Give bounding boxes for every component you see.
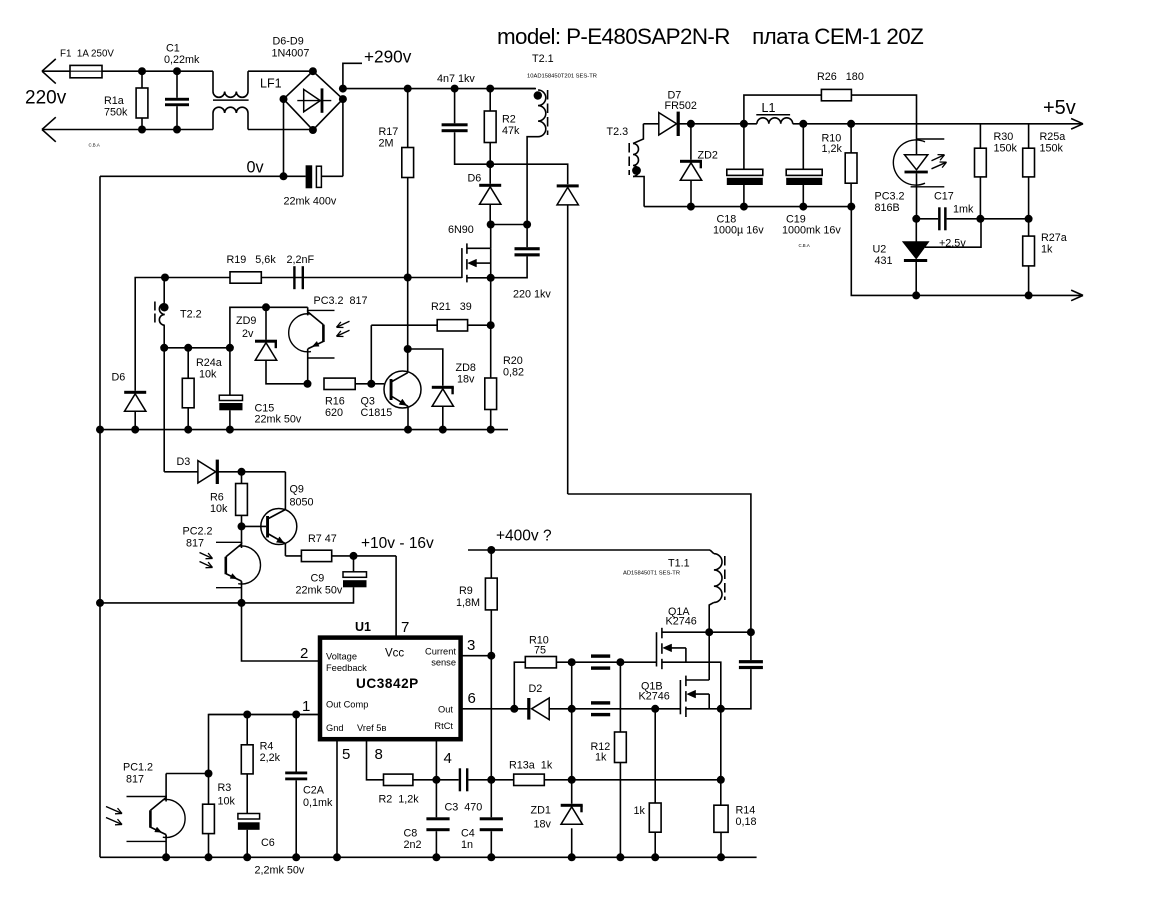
svg-text:2v: 2v: [242, 328, 254, 340]
svg-text:T2.1: T2.1: [532, 53, 554, 65]
svg-text:220 1kv: 220 1kv: [513, 289, 551, 301]
svg-text:R2: R2: [502, 114, 516, 126]
svg-text:K2746: K2746: [666, 616, 697, 628]
svg-text:150k: 150k: [1040, 143, 1064, 155]
svg-text:2,2mk 50v: 2,2mk 50v: [255, 865, 305, 877]
svg-text:R19 5,6k: R19 5,6k: [227, 254, 277, 266]
svg-text:K2746: K2746: [639, 691, 670, 703]
svg-text:С.В.А: С.В.А: [799, 243, 810, 248]
svg-text:1k: 1k: [1041, 244, 1053, 256]
svg-text:LF1: LF1: [260, 77, 282, 91]
svg-text:Gnd: Gnd: [326, 723, 344, 733]
svg-text:C9: C9: [311, 573, 325, 585]
svg-text:+5v: +5v: [1043, 97, 1076, 119]
svg-text:8: 8: [375, 746, 383, 763]
svg-text:T2.3: T2.3: [607, 126, 629, 138]
svg-text:R6: R6: [210, 492, 224, 504]
svg-text:3: 3: [467, 637, 475, 654]
svg-text:1,8M: 1,8M: [456, 597, 480, 609]
svg-text:431: 431: [875, 255, 893, 267]
svg-text:T1.1: T1.1: [668, 558, 690, 570]
svg-text:R9: R9: [459, 585, 473, 597]
svg-text:ZD2: ZD2: [698, 150, 718, 162]
svg-text:R25a: R25a: [1040, 131, 1066, 143]
svg-text:C4: C4: [461, 828, 475, 840]
svg-text:6: 6: [468, 690, 476, 707]
svg-text:Out: Out: [438, 705, 453, 715]
svg-text:C1: C1: [166, 43, 180, 55]
svg-text:150k: 150k: [994, 143, 1018, 155]
svg-text:75: 75: [534, 645, 546, 657]
svg-text:2: 2: [300, 645, 308, 662]
svg-text:D6: D6: [112, 372, 126, 384]
svg-text:RtCt: RtCt: [434, 721, 453, 731]
svg-text:+400v ?: +400v ?: [496, 528, 552, 545]
svg-text:PC1.2: PC1.2: [123, 762, 153, 774]
svg-text:6N90: 6N90: [448, 224, 474, 236]
svg-text:R27a: R27a: [1041, 232, 1067, 244]
svg-text:R17: R17: [379, 126, 399, 138]
svg-text:C6: C6: [261, 837, 275, 849]
svg-text:C3 470: C3 470: [445, 802, 483, 814]
svg-text:R20: R20: [503, 355, 523, 367]
svg-text:ZD1: ZD1: [531, 805, 551, 817]
svg-text:47k: 47k: [502, 125, 520, 137]
svg-text:10k: 10k: [210, 503, 228, 515]
svg-text:+10v - 16v: +10v - 16v: [361, 535, 434, 552]
svg-text:5: 5: [342, 746, 350, 763]
svg-text:750k: 750k: [104, 107, 128, 119]
svg-text:2n2: 2n2: [404, 839, 422, 851]
svg-text:Current: Current: [425, 647, 456, 657]
svg-text:10k: 10k: [199, 369, 217, 381]
svg-text:ZD9: ZD9: [236, 315, 256, 327]
svg-text:2,2k: 2,2k: [260, 752, 281, 764]
svg-text:7: 7: [401, 619, 409, 636]
svg-text:10AD158450T201 SES-TR: 10AD158450T201 SES-TR: [527, 74, 597, 80]
svg-text:816B: 816B: [875, 202, 900, 214]
svg-text:C8: C8: [404, 828, 418, 840]
svg-text:sense: sense: [431, 658, 456, 668]
svg-text:R24a: R24a: [196, 357, 222, 369]
svg-text:0,18: 0,18: [736, 816, 757, 828]
svg-text:T2.2: T2.2: [180, 309, 202, 321]
svg-text:0,1mk: 0,1mk: [303, 797, 333, 809]
svg-text:R30: R30: [994, 131, 1014, 143]
svg-text:PC3.2 817: PC3.2 817: [314, 295, 368, 307]
svg-text:817: 817: [186, 538, 204, 550]
svg-text:Q3: Q3: [361, 396, 375, 408]
svg-text:18v: 18v: [457, 374, 475, 386]
svg-text:D2: D2: [529, 683, 543, 695]
svg-text:Out Comp: Out Comp: [326, 700, 368, 710]
svg-text:1N4007: 1N4007: [272, 48, 310, 60]
svg-text:4n7 1kv: 4n7 1kv: [437, 73, 475, 85]
svg-text:R14: R14: [736, 805, 756, 817]
svg-text:R2 1,2k: R2 1,2k: [379, 794, 420, 806]
svg-text:1n: 1n: [461, 839, 473, 851]
svg-text:1mk: 1mk: [953, 204, 974, 216]
svg-text:1000mk 16v: 1000mk 16v: [782, 225, 841, 237]
svg-text:1k: 1k: [595, 752, 607, 764]
svg-text:8050: 8050: [290, 497, 314, 509]
svg-text:FR502: FR502: [665, 100, 697, 112]
svg-text:D6: D6: [468, 173, 482, 185]
svg-text:C17: C17: [934, 191, 954, 203]
svg-text:UC3842P: UC3842P: [356, 676, 419, 691]
svg-text:R7 47: R7 47: [308, 533, 337, 545]
svg-text:220v: 220v: [25, 88, 67, 109]
svg-text:L1: L1: [762, 101, 776, 115]
svg-text:R26 180: R26 180: [817, 71, 864, 83]
svg-text:1,2k: 1,2k: [822, 143, 843, 155]
svg-text:22mk 50v: 22mk 50v: [296, 585, 343, 597]
svg-text:Voltage: Voltage: [326, 652, 357, 662]
svg-text:0v: 0v: [247, 159, 265, 177]
svg-text:model: P-E480SAP2N-R плата: model: P-E480SAP2N-R плата CEM-1 20Z: [497, 24, 923, 49]
svg-text:U1: U1: [355, 620, 371, 634]
svg-text:PC2.2: PC2.2: [183, 526, 213, 538]
svg-text:PC3.2: PC3.2: [875, 191, 905, 203]
svg-text:22mk 400v: 22mk 400v: [284, 196, 337, 208]
svg-text:Vcc: Vcc: [385, 648, 404, 660]
svg-text:AD158450T1 SES-TR: AD158450T1 SES-TR: [623, 571, 680, 577]
svg-text:620: 620: [325, 407, 343, 419]
svg-text:Q9: Q9: [290, 484, 304, 496]
svg-text:Vref 5в: Vref 5в: [357, 723, 386, 733]
svg-text:1: 1: [302, 698, 310, 715]
svg-text:R3: R3: [218, 782, 232, 794]
svg-text:R4: R4: [260, 741, 274, 753]
svg-text:R16: R16: [325, 396, 345, 408]
svg-text:1000µ 16v: 1000µ 16v: [713, 225, 764, 237]
svg-text:F1 1A 250V: F1 1A 250V: [60, 49, 114, 60]
svg-text:18v: 18v: [534, 819, 552, 831]
svg-text:C1815: C1815: [361, 407, 393, 419]
svg-text:C2A: C2A: [303, 785, 325, 797]
svg-text:4: 4: [444, 750, 452, 767]
svg-text:R1a: R1a: [104, 95, 124, 107]
svg-text:U2: U2: [873, 244, 887, 256]
svg-text:2M: 2M: [379, 138, 394, 150]
svg-text:Feedback: Feedback: [326, 663, 367, 673]
svg-text:0,82: 0,82: [503, 367, 524, 379]
svg-text:817: 817: [126, 774, 144, 786]
svg-text:+2,5v: +2,5v: [939, 238, 966, 250]
svg-text:2,2nF: 2,2nF: [287, 254, 315, 266]
svg-text:С.В.А: С.В.А: [89, 143, 100, 148]
svg-text:0,22mk: 0,22mk: [164, 54, 200, 66]
svg-text:1k: 1k: [634, 805, 646, 817]
svg-text:ZD8: ZD8: [456, 362, 476, 374]
svg-text:10k: 10k: [218, 796, 236, 808]
svg-text:+290v: +290v: [364, 47, 412, 67]
svg-text:D6-D9: D6-D9: [273, 36, 304, 48]
svg-text:R13a 1k: R13a 1k: [509, 760, 553, 772]
svg-text:R21 39: R21 39: [431, 301, 472, 313]
svg-text:22mk 50v: 22mk 50v: [255, 414, 302, 426]
svg-text:D3: D3: [177, 456, 191, 468]
